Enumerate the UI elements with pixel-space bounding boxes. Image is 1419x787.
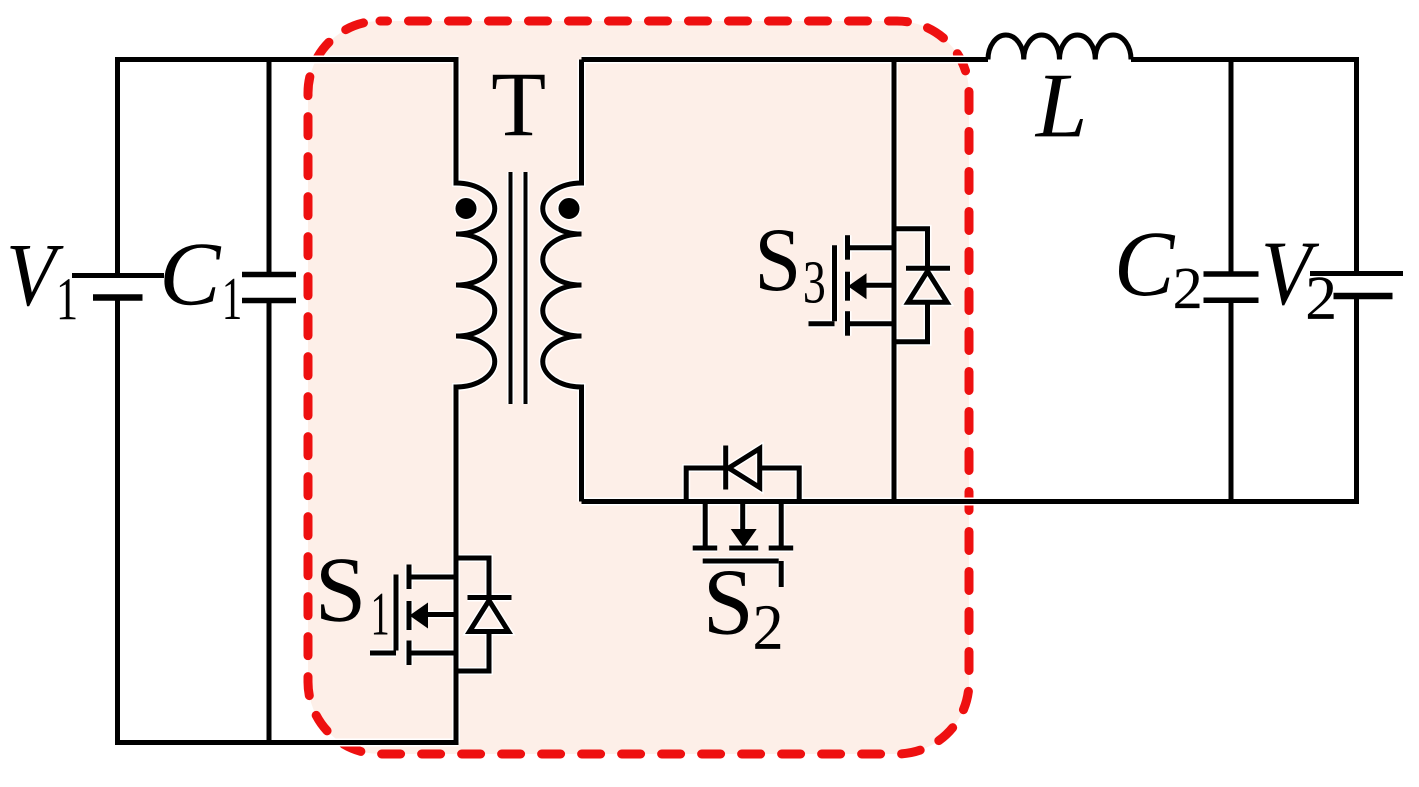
highlighted converter cell: red dashed rounded rect [308, 21, 969, 754]
transformer core lines [511, 172, 526, 404]
transformer core lines casing [511, 172, 526, 404]
